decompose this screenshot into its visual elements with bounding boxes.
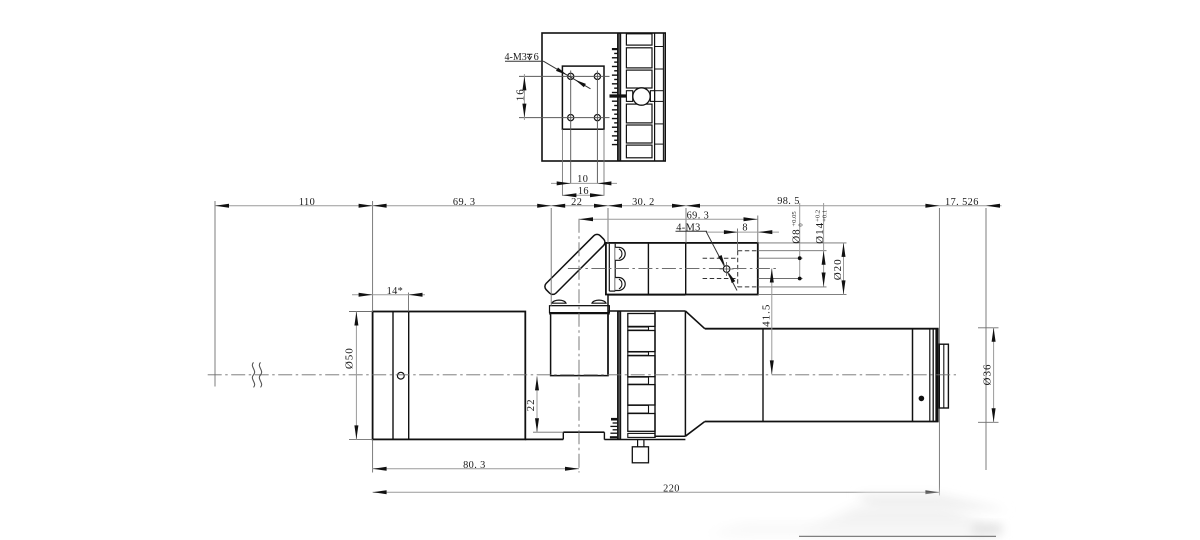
svg-text:110: 110: [299, 197, 315, 208]
screw dome cap left: [552, 300, 566, 303]
horizontal arm block: [606, 243, 758, 295]
dim line 80.3: [373, 468, 579, 470]
body left edge under arm: [607, 295, 609, 376]
dim line D14: [823, 203, 825, 287]
svg-text:Ø50: Ø50: [344, 347, 356, 369]
knurl blocks (top view): [626, 34, 652, 45]
dim line 41.5: [771, 269, 773, 375]
svg-text:10: 10: [577, 174, 588, 185]
svg-text:16: 16: [578, 186, 589, 197]
cap ring line: [929, 329, 931, 420]
knob stem right: [643, 440, 645, 447]
index mark (top view): [610, 94, 629, 97]
dimension arrows: [215, 204, 229, 208]
left tab at thumbscrew row: [626, 91, 632, 102]
svg-text:220: 220: [663, 483, 680, 494]
dim line 8: [706, 231, 779, 233]
M3 screw circle on arm: [723, 266, 730, 273]
svg-text:22: 22: [571, 197, 582, 208]
arm axis centerline: [568, 268, 778, 270]
step riser: [562, 432, 564, 439]
step riser 2: [603, 432, 605, 439]
dim line D36: [993, 328, 995, 423]
mount strip line 2: [614, 244, 616, 291]
bracket plate dark band: [550, 312, 610, 314]
screw crosshair h: [720, 268, 734, 270]
hole 2 (M3): [594, 73, 600, 79]
set screw hole on cylinder: [397, 372, 404, 379]
break squiggle marks: [252, 362, 254, 387]
dim line D20: [843, 243, 845, 295]
knurl blocks (side view): [628, 314, 655, 327]
tube joint line: [762, 329, 764, 422]
hidden counterbore D14 in arm: [737, 251, 739, 287]
dim line 22 (bracket): [536, 376, 538, 432]
dim line 220: [373, 491, 940, 493]
base bottom edge: [525, 438, 563, 440]
dim line 10 (top view): [551, 182, 617, 184]
tube end ring line: [912, 329, 914, 422]
lower bolt (socket head, side): [615, 278, 625, 291]
dim line D50: [355, 312, 357, 440]
svg-text:Ø8: Ø8: [790, 228, 802, 243]
svg-text:+0.1: +0.1: [821, 210, 828, 222]
svg-text:69. 3: 69. 3: [453, 197, 476, 208]
leader arrowhead lower: [728, 272, 735, 283]
graduation ticks (top view): [612, 48, 618, 50]
knurl ring / body top edge: [608, 310, 685, 312]
rear set screw dot: [919, 396, 925, 402]
45-degree mirror (rotated rounded rect): [543, 233, 607, 297]
dim text D8 +0.05/0: [790, 211, 804, 244]
knob stem left: [637, 440, 639, 447]
step top edge: [563, 431, 604, 433]
upper bolt (socket head, side): [615, 247, 625, 260]
lock knob square: [632, 447, 648, 463]
hole 1 (M3): [568, 73, 574, 79]
leader 4-M3 depth 6 (top view): [505, 60, 543, 62]
cylinder front ring line 2: [408, 312, 410, 440]
dim line 16 (top view): [562, 194, 604, 196]
bracket plate top edge: [551, 305, 608, 307]
darker smudge near line end: [972, 524, 1002, 534]
svg-text:69. 3: 69. 3: [687, 210, 710, 221]
main cylinder body D50: [373, 312, 526, 440]
bracket vertical centerline: [578, 219, 580, 473]
svg-text:30. 2: 30. 2: [632, 197, 655, 208]
screw crosshair v: [726, 262, 728, 276]
index strip band (side): [617, 311, 621, 440]
rear small disc: [939, 344, 948, 408]
hole 3 (M3): [568, 115, 574, 121]
svg-text:98. 5: 98. 5: [777, 196, 800, 207]
svg-text:Ø20: Ø20: [832, 258, 844, 280]
hidden hole lines D8 in arm: [703, 257, 737, 259]
svg-text:41.5: 41.5: [761, 304, 773, 327]
dim line 69.3 (arm): [579, 218, 758, 220]
bracket column: [551, 314, 608, 375]
soft shadow wedge top right: [856, 494, 1008, 510]
cone top edge: [685, 311, 704, 329]
leader arrowhead upper: [718, 255, 725, 266]
svg-text:16: 16: [515, 88, 527, 101]
svg-text:4-M3: 4-M3: [505, 52, 527, 63]
svg-text:Ø14: Ø14: [814, 222, 826, 244]
top view body outline: [542, 33, 665, 161]
hole 4 (M3): [594, 115, 600, 121]
cone bottom edge: [685, 422, 704, 437]
knurl connector rects (side view): [628, 327, 649, 330]
graduation ticks (side view): [611, 418, 617, 421]
ring side connectors (top view): [655, 46, 664, 48]
body bottom edge right part: [655, 435, 685, 437]
extension lines: [214, 201, 216, 387]
strip hairline (top view): [618, 34, 620, 160]
knurl bottom small rect: [628, 433, 655, 437]
dim text D14 +0.2/+0.1: [814, 210, 828, 244]
body right edge: [684, 311, 686, 436]
dim dot D8 top: [798, 256, 802, 260]
svg-text:14*: 14*: [387, 286, 404, 297]
svg-text:22: 22: [525, 398, 537, 411]
main horizontal dim chain line: [215, 205, 1002, 207]
strip hairline (side): [618, 312, 620, 439]
svg-text:8: 8: [742, 223, 747, 234]
main tube outline: [705, 328, 939, 330]
svg-text:Ø36: Ø36: [981, 364, 993, 386]
dim line 16 vertical (top view): [523, 74, 525, 120]
svg-text:4-M3: 4-M3: [676, 222, 700, 233]
knurl ring bottom edge: [604, 439, 685, 441]
top view mounting plate: [562, 66, 604, 129]
thumbscrew circle (top view): [633, 88, 650, 105]
svg-text:6: 6: [534, 52, 539, 63]
svg-text:17. 526: 17. 526: [945, 197, 979, 208]
arm internal line 2: [685, 243, 687, 295]
dim dot D8 bottom: [798, 277, 802, 281]
arm internal line 1: [647, 243, 649, 295]
extension line at rear cap face x=939: [938, 208, 940, 496]
rear disc inner line: [943, 344, 945, 408]
ring/body joint line: [654, 311, 656, 438]
svg-text:80. 3: 80. 3: [463, 460, 486, 471]
soft shadow trapezoid: [800, 506, 1002, 535]
mount strip line 1: [608, 244, 610, 291]
index strip band (top view): [617, 33, 621, 161]
ring side line 2 (top view): [662, 33, 664, 161]
leader 4-M3 (arm): [676, 230, 708, 232]
mount strip bottom: [609, 290, 615, 292]
right tab at thumbscrew row: [650, 91, 654, 102]
cap dark band: [936, 329, 939, 421]
screw dome cap right: [592, 300, 606, 303]
dim line D8: [799, 203, 801, 279]
shadow base line: [799, 535, 996, 537]
extension line image plane x=986: [985, 208, 987, 470]
main optical axis centerline: [208, 374, 956, 376]
dim line 14*: [352, 294, 425, 296]
bracket plate body: [550, 306, 610, 313]
ring side line (top view): [654, 33, 656, 161]
cap ring line 2: [932, 329, 934, 421]
body top edge under arm: [608, 294, 685, 296]
cylinder front ring line 1: [392, 312, 394, 440]
